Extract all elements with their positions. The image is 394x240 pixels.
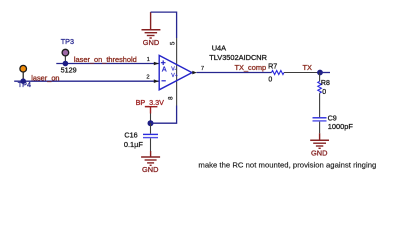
input arrow pin 1	[154, 62, 159, 66]
op-amp U4A pin 5 / pin 8 vertical stub through body	[176, 38, 178, 106]
svg-text:C16: C16	[124, 131, 137, 140]
svg-text:V-: V-	[171, 66, 176, 72]
wire output to R7	[197, 72, 272, 74]
svg-text:V+: V+	[171, 73, 178, 79]
test point TP3 stem	[64, 56, 66, 64]
R8 top lead	[319, 73, 321, 82]
svg-text:0.1µF: 0.1µF	[124, 140, 144, 149]
resistor R7 zigzag	[272, 71, 284, 75]
svg-text:TX_comp: TX_comp	[235, 63, 267, 72]
svg-text:0: 0	[268, 76, 272, 83]
svg-text:U4A: U4A	[212, 44, 226, 53]
BP_3.3V stem lower part	[150, 114, 152, 122]
junction at TP3	[63, 61, 69, 67]
R8 bottom lead	[319, 93, 321, 117]
test point TP4 stem	[22, 72, 24, 82]
svg-text:2: 2	[146, 75, 149, 81]
svg-text:GND: GND	[143, 38, 159, 47]
svg-text:make the RC not mounted, provi: make the RC not mounted, provision again…	[198, 161, 376, 170]
svg-text:1: 1	[147, 57, 150, 63]
power symbol BP_3.3V	[145, 107, 158, 114]
wire laser_on_threshold net	[56, 63, 159, 65]
svg-text:A: A	[162, 67, 167, 74]
output arrow pin 7	[192, 71, 197, 75]
wire TX stub right	[320, 72, 330, 74]
op-amp U4A triangle	[159, 55, 192, 89]
ground GND at C9	[310, 133, 329, 148]
svg-text:R8: R8	[321, 80, 330, 87]
wire laser_on net	[14, 80, 159, 82]
svg-text:R7: R7	[268, 62, 277, 71]
svg-text:5129: 5129	[61, 65, 77, 74]
input arrow pin 2	[154, 79, 159, 83]
svg-text:TP3: TP3	[61, 37, 74, 46]
C9 bottom lead	[319, 122, 321, 134]
svg-text:GND: GND	[142, 165, 158, 174]
capacitor C16 plates	[143, 133, 158, 135]
svg-text:TLV3502AIDCNR: TLV3502AIDCNR	[209, 53, 267, 62]
wire GND top to pin 5	[151, 12, 177, 38]
svg-text:1000pF: 1000pF	[328, 122, 354, 131]
junction at TP4	[20, 78, 26, 84]
test point TP4 circle	[20, 65, 27, 72]
svg-text:0: 0	[322, 89, 326, 96]
C16 top lead	[150, 123, 152, 134]
svg-text:laser_on_threshold: laser_on_threshold	[74, 55, 137, 64]
R7 right lead to TX junction	[284, 72, 320, 74]
ground GND top (pin 5)	[142, 12, 161, 38]
svg-text:BP_3.3V: BP_3.3V	[136, 98, 165, 107]
capacitor C9 plates	[313, 117, 327, 119]
svg-text:GND: GND	[311, 148, 327, 157]
wire junction to pin 8	[151, 106, 177, 124]
svg-text:TX: TX	[303, 63, 313, 72]
C16 bottom lead	[150, 138, 152, 151]
op-amp plus symbol	[161, 60, 166, 65]
ground GND at C16	[141, 151, 160, 165]
junction TX node	[317, 70, 323, 76]
op-amp minus symbol	[162, 80, 166, 82]
svg-text:7: 7	[201, 66, 204, 72]
test point TP3 circle	[62, 49, 69, 56]
svg-text:laser_on: laser_on	[31, 73, 59, 82]
junction BP / C16 / pin8	[148, 120, 154, 126]
resistor R8 zigzag	[318, 81, 322, 93]
